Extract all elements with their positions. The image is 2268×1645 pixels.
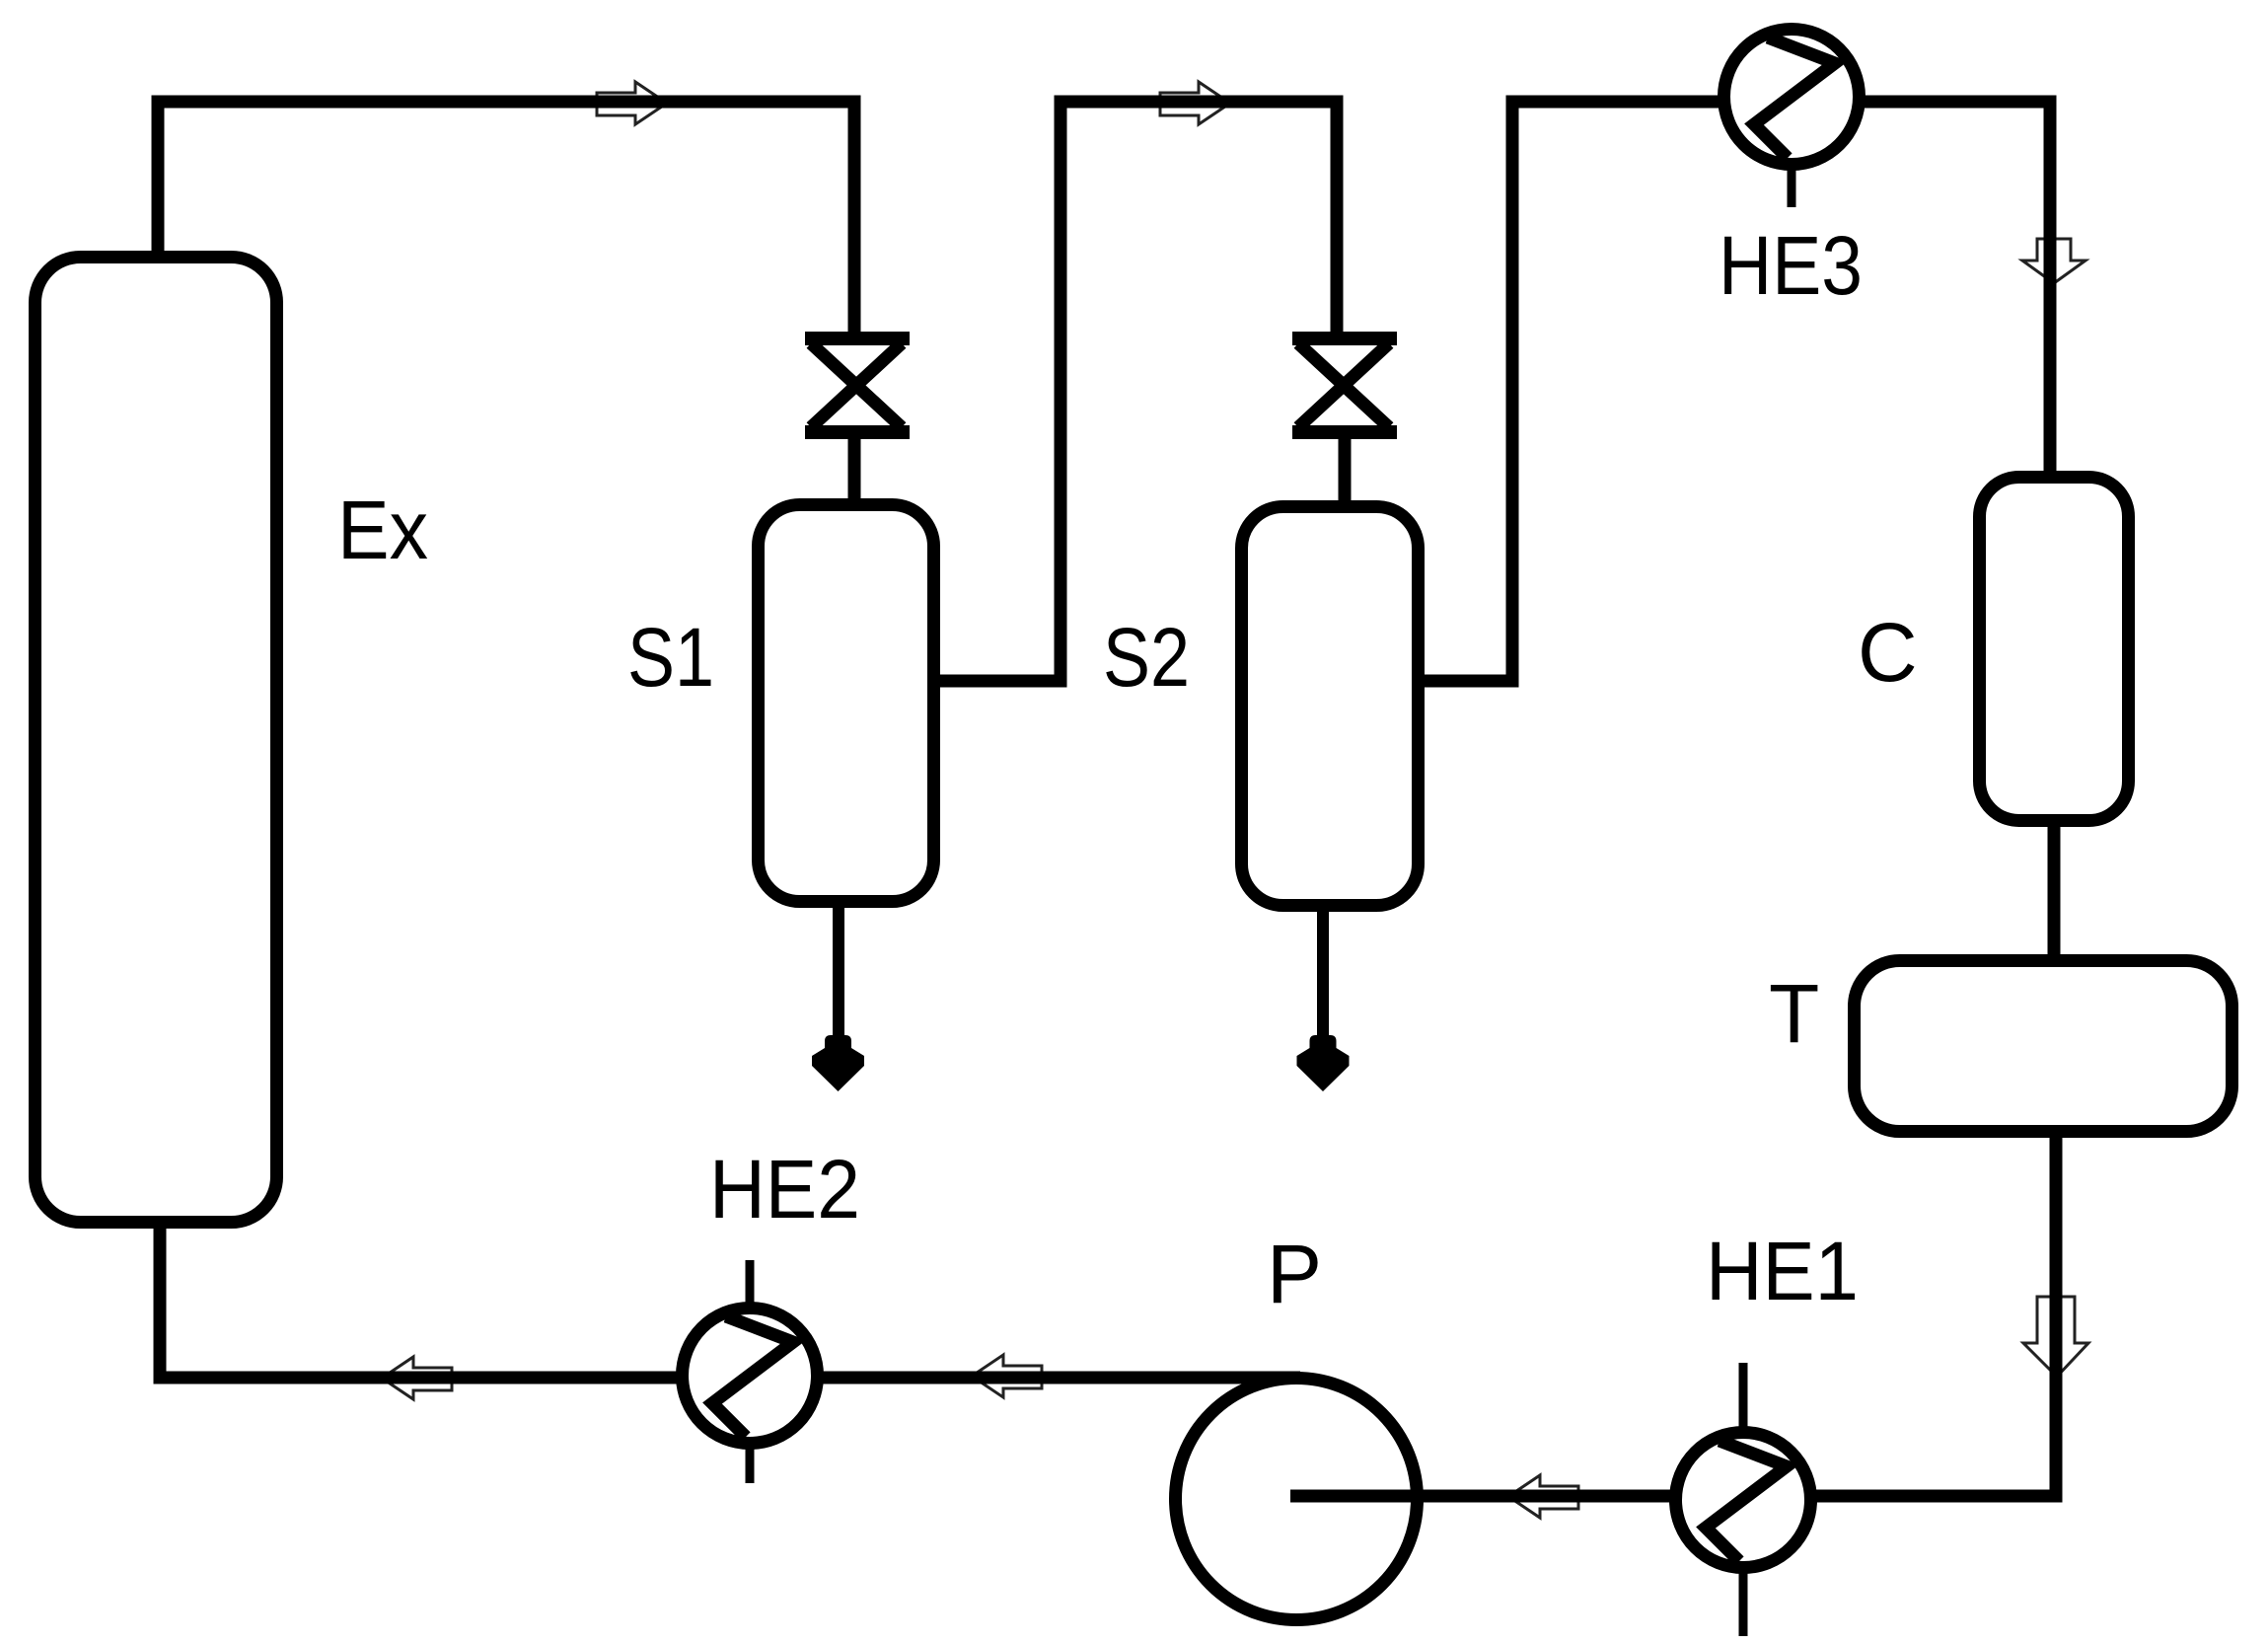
- heat exchanger HE1 circle: [1676, 1433, 1811, 1568]
- S2 bottom outlet wire: [1317, 906, 1329, 1072]
- extractor Ex vessel: [36, 258, 277, 1223]
- tank T vessel: [1855, 961, 2232, 1132]
- valve V2 (between top line and S2): [1292, 338, 1397, 508]
- flow arrow (hollow, right) on line S1 to S2: [1160, 82, 1230, 124]
- heat exchanger HE1 ticks: [1739, 1363, 1748, 1636]
- svg-text:HE3: HE3: [1719, 219, 1863, 312]
- svg-text:C: C: [1858, 606, 1918, 699]
- heat exchanger HE3 circle: [1724, 30, 1860, 165]
- HE1 inner arrow motif: [1706, 1441, 1787, 1561]
- valve V1 (between top line and S1): [805, 338, 910, 503]
- HE2 inner arrow motif: [712, 1316, 793, 1437]
- svg-text:HE2: HE2: [709, 1143, 860, 1235]
- wire Ex bottom riser and bottom line to pump P (through HE2): [154, 1224, 1301, 1378]
- flow arrow (hollow, left) on line HE1 to P: [1508, 1475, 1578, 1518]
- pump P circle: [1176, 1379, 1418, 1620]
- heat exchanger HE2 ticks: [746, 1260, 755, 1483]
- wire Ex top riser + top line to valve V1: [158, 102, 854, 336]
- flow arrow (hollow, down) on line HE3 to C: [2022, 239, 2085, 283]
- svg-text:S2: S2: [1103, 611, 1190, 704]
- heat exchanger HE2 circle: [683, 1309, 818, 1444]
- flow arrow (hollow, right) on line Ex to S1: [597, 82, 667, 124]
- svg-text:S1: S1: [627, 611, 714, 704]
- wire HE3 to compressor C: [1859, 102, 2050, 478]
- wire pump P to HE1 and corner: [1290, 1490, 1819, 1503]
- wire S2 right outlet, riser and top line to HE3: [1419, 102, 1724, 681]
- svg-text:P: P: [1267, 1228, 1322, 1320]
- wire T down to corner and left to HE1: [1819, 1132, 2063, 1496]
- wire S1 right outlet, riser and top line to valve V2: [934, 102, 1337, 681]
- heat exchanger HE3 tick: [1788, 158, 1796, 207]
- flow arrow (hollow, left) on line HE2 to Ex: [382, 1357, 452, 1399]
- S2 outlet solid arrowhead: [1297, 1035, 1350, 1091]
- separator S2 vessel: [1242, 507, 1419, 906]
- svg-text:T: T: [1769, 967, 1819, 1060]
- HE3 inner arrow motif: [1754, 37, 1835, 158]
- flow arrow (hollow, down) on line T to HE1: [2023, 1297, 2088, 1377]
- wire C to T: [2048, 821, 2061, 960]
- flow arrow (hollow, left) on line P to HE2: [972, 1355, 1042, 1397]
- compressor C vessel: [1980, 478, 2129, 821]
- svg-text:Ex: Ex: [337, 484, 428, 576]
- S1 bottom outlet wire: [833, 902, 844, 1072]
- separator S1 vessel: [759, 505, 934, 902]
- svg-text:HE1: HE1: [1706, 1225, 1859, 1317]
- S1 outlet solid arrowhead: [812, 1035, 864, 1091]
